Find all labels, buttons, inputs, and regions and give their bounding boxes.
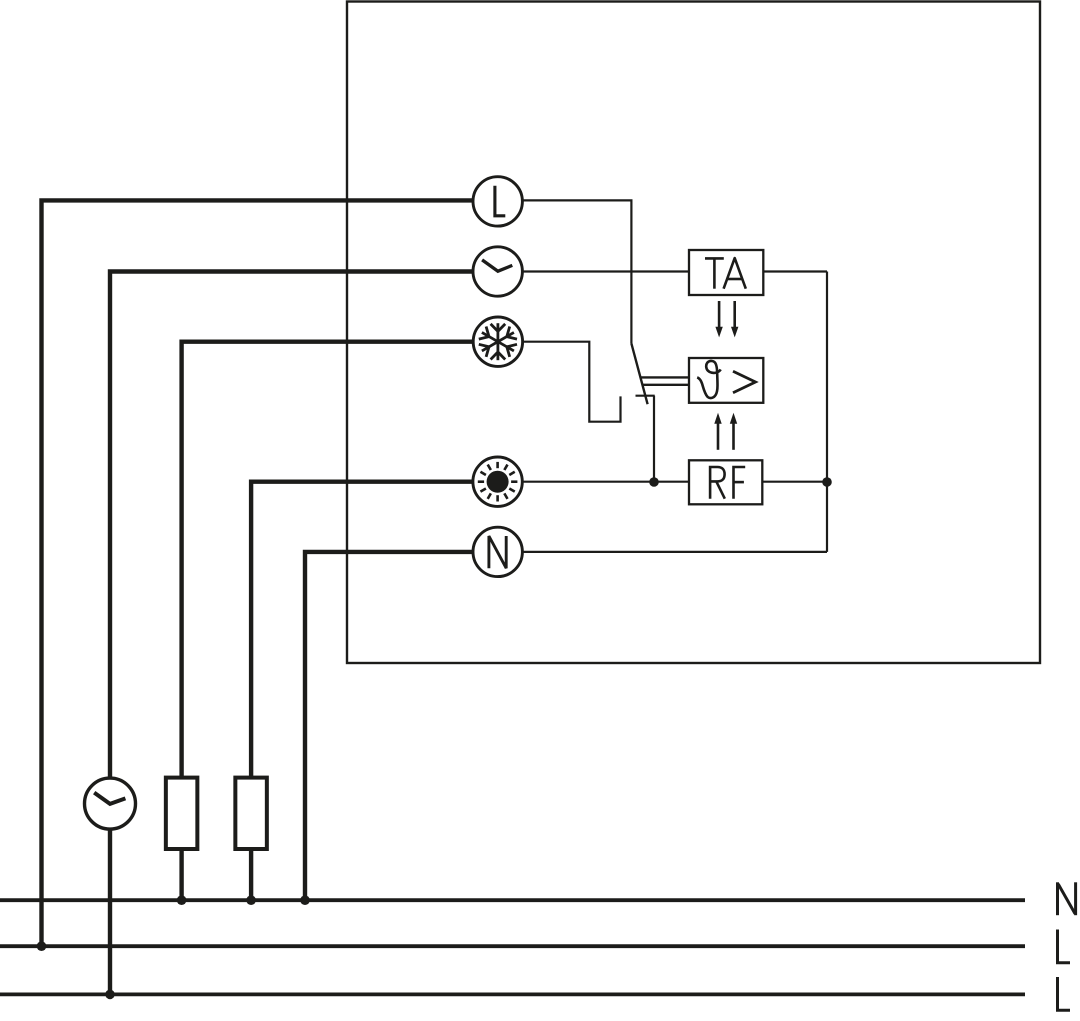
sun rays — [478, 462, 518, 502]
resistor R2 — [235, 778, 267, 849]
wire resistor R2 top to sun terminal — [251, 482, 473, 778]
arrow down 1 (TA to thermostat) — [715, 301, 722, 337]
bus L1 line — [0, 944, 1025, 948]
bus L2 line — [0, 993, 1025, 997]
wire resistor R1 top to snowflake terminal — [182, 342, 473, 778]
switch contact tick — [636, 395, 655, 397]
label L (bus L2) — [1058, 977, 1071, 1010]
box TA — [689, 250, 763, 295]
terminal clock — [473, 247, 522, 296]
node L supply on bus L1 — [37, 941, 47, 951]
label TA — [705, 258, 746, 289]
node N supply on bus N — [300, 895, 310, 905]
label N (bus N) — [1058, 882, 1076, 915]
switch S1 lever — [631, 344, 647, 405]
device enclosure box — [347, 2, 1040, 664]
terminal clock hands — [482, 260, 512, 271]
terminal N — [473, 527, 522, 576]
terminal N glyph "N" — [489, 536, 506, 568]
bus N line — [0, 898, 1025, 902]
switch actuator link line 1 — [640, 376, 689, 378]
wire N supply (bus N up to terminal N) — [305, 552, 473, 900]
wire TA to right rail — [763, 270, 827, 272]
wire timer branch upper (timer clock up, right to clock terminal) — [110, 272, 473, 779]
node RF-rail junction — [822, 477, 832, 487]
terminal L glyph "L" — [495, 186, 505, 216]
terminal sun — [473, 457, 522, 506]
snowflake glyph — [479, 323, 517, 360]
timer clock — [85, 778, 136, 829]
greater-than glyph — [733, 371, 756, 393]
wire switch contact down to RF node — [653, 396, 655, 482]
wire timer branch lower (bus L2 up to timer clock) — [108, 829, 112, 994]
sun disc — [487, 471, 509, 493]
wire RF to right rail — [762, 481, 827, 483]
box RF — [689, 460, 762, 504]
wire L supply (bus L1 up, right to terminal L) — [42, 200, 474, 946]
resistor R1 — [166, 778, 198, 849]
wire frost contact hook (snowflake terminal to open contact) — [522, 342, 620, 422]
arrow up 2 (RF to thermostat) — [730, 413, 737, 450]
node timer on bus L2 — [105, 990, 115, 1000]
label RF — [710, 467, 745, 499]
wire clock terminal to TA — [522, 270, 689, 272]
switch actuator link line 2 — [642, 384, 689, 386]
wire resistor R1 bottom to bus N — [179, 849, 183, 900]
theta glyph — [697, 361, 721, 398]
box thermostat — [689, 358, 763, 403]
wire sun terminal to RF — [522, 481, 689, 483]
label L (bus L1) — [1058, 930, 1071, 963]
wire resistor R2 bottom to bus N — [249, 849, 253, 900]
node R1 on bus N — [177, 895, 187, 905]
terminal snowflake — [473, 317, 522, 366]
wire L terminal to switch pivot — [522, 200, 631, 343]
node switch-RF junction — [649, 477, 659, 487]
wire N terminal to right rail — [522, 551, 827, 553]
terminal L — [473, 177, 522, 226]
arrow down 2 (TA to thermostat) — [731, 301, 738, 337]
arrow up 1 (RF to thermostat) — [714, 413, 721, 450]
wire right rail (TA level down to N level) — [826, 272, 828, 552]
timer clock hands — [94, 793, 125, 804]
node R2 on bus N — [246, 895, 256, 905]
